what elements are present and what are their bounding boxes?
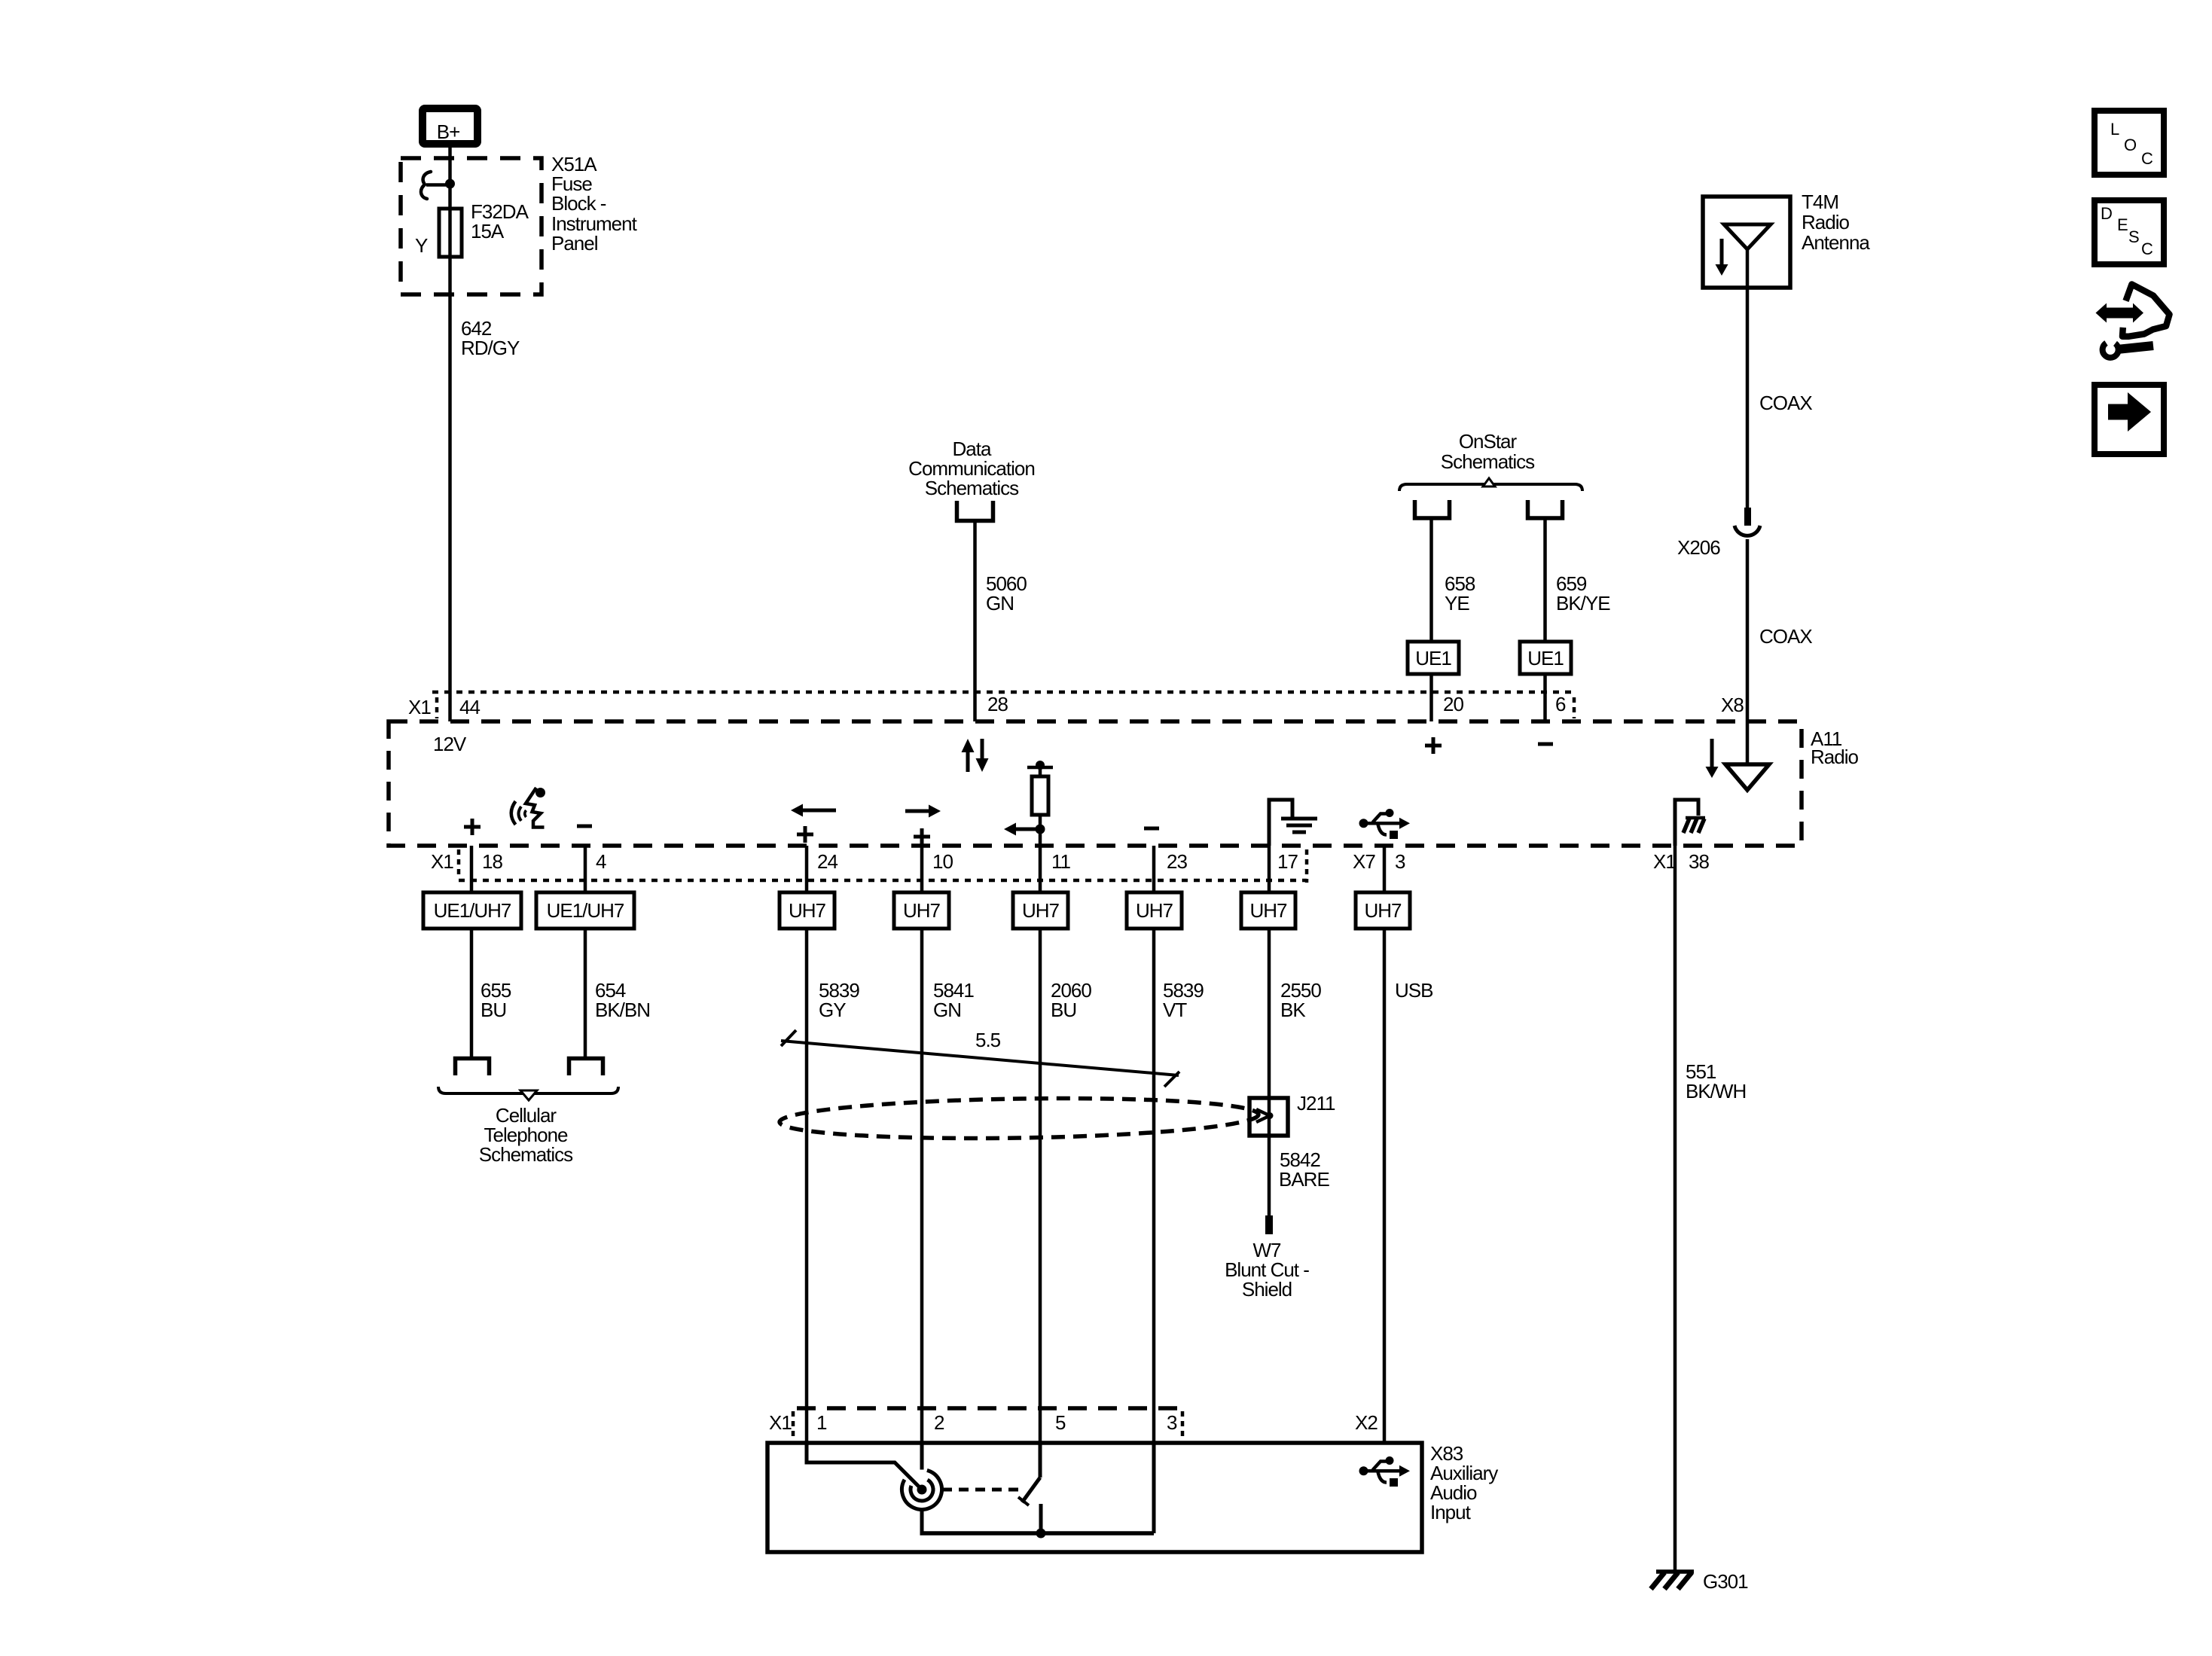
svg-text:G301: G301 <box>1703 1570 1748 1593</box>
forward reference arrow box <box>2095 385 2164 454</box>
svg-text:UE1/UH7: UE1/UH7 <box>434 899 511 922</box>
svg-text:44: 44 <box>459 696 480 718</box>
radio antenna T4M box <box>1703 197 1790 288</box>
svg-text:X206: X206 <box>1677 536 1720 559</box>
svg-text:6: 6 <box>1555 693 1566 715</box>
B+ battery terminal box <box>423 108 477 144</box>
resistor network (pin 11) <box>1004 761 1053 846</box>
splice J211 <box>1249 1098 1288 1136</box>
harness code box UH7 (pin X7-3) <box>1356 892 1410 929</box>
svg-text:X1: X1 <box>408 696 431 718</box>
shield ellipse (dashed) <box>780 1095 1259 1142</box>
svg-text:38: 38 <box>1689 850 1709 873</box>
special tools icon <box>2096 285 2170 358</box>
wire stub X83 pin 2 <box>920 1408 924 1443</box>
wire USB <box>1383 929 1387 1443</box>
svg-text:18: 18 <box>482 850 502 873</box>
svg-text:12V: 12V <box>433 733 467 755</box>
svg-text:RD/GY: RD/GY <box>461 337 520 359</box>
earth ground symbol (pin 17) <box>1269 800 1317 846</box>
jack vertical wire (pin 2) <box>920 1443 924 1470</box>
svg-text:YE: YE <box>1445 592 1469 615</box>
svg-text:Schematics: Schematics <box>479 1143 573 1166</box>
chassis ground (pin X1-38) inside radio <box>1675 800 1705 846</box>
switch wire (pin 5) <box>1039 1443 1042 1478</box>
svg-text:UH7: UH7 <box>1022 899 1060 922</box>
svg-text:Radio: Radio <box>1802 211 1849 233</box>
svg-text:1: 1 <box>816 1411 827 1434</box>
svg-text:24: 24 <box>817 850 838 873</box>
bus hook symbol <box>421 172 431 199</box>
plus mark (pin 10) <box>914 835 930 839</box>
svg-text:15A: 15A <box>471 220 505 242</box>
plus mark (pin 18) <box>464 825 481 829</box>
svg-text:J211: J211 <box>1297 1092 1335 1115</box>
harness code box UH7 (pin 11) <box>1013 892 1068 929</box>
svg-text:UH7: UH7 <box>1136 899 1173 922</box>
svg-text:Panel: Panel <box>551 232 598 255</box>
wire 658 YE <box>1429 520 1433 642</box>
jack feed wire (pin 1) <box>807 1443 920 1488</box>
svg-text:4: 4 <box>596 850 606 873</box>
svg-text:USB: USB <box>1395 979 1432 1002</box>
svg-text:Block -: Block - <box>551 192 606 215</box>
label X51A Fuse Block - Instrument Panel <box>551 153 638 255</box>
cellular stub connector (654) <box>569 1059 603 1076</box>
svg-text:GN: GN <box>986 592 1014 615</box>
cellular stub connector (655) <box>456 1059 490 1076</box>
wire stub X83 pin 1 <box>805 1408 809 1443</box>
svg-text:BK/BN: BK/BN <box>595 999 650 1021</box>
svg-text:D: D <box>2101 204 2112 223</box>
minus mark (pin 4) <box>577 825 592 828</box>
microphone icon inside radio <box>511 788 545 828</box>
svg-text:GY: GY <box>819 999 846 1021</box>
harness code box UH7 (pin 23) <box>1127 892 1182 929</box>
audio jack symbol <box>902 1470 941 1509</box>
svg-text:BK: BK <box>1280 999 1306 1021</box>
svg-text:UH7: UH7 <box>1249 899 1287 922</box>
svg-text:BU: BU <box>1051 999 1076 1021</box>
wire B+ to fuse <box>448 144 452 721</box>
junction node in fuse block <box>445 179 455 189</box>
inline connector X206 <box>1744 508 1751 526</box>
svg-text:UH7: UH7 <box>903 899 941 922</box>
svg-text:COAX: COAX <box>1759 625 1812 648</box>
label Cellular Telephone Schematics <box>479 1104 573 1166</box>
OnStar stub connector 2 <box>1528 500 1563 518</box>
data in/out arrows inside radio <box>962 739 989 772</box>
svg-text:OnStar: OnStar <box>1459 430 1518 453</box>
svg-text:E: E <box>2117 215 2128 234</box>
harness code box UH7 (pin 10) <box>894 892 949 929</box>
OnStar schematics brace <box>1399 478 1582 491</box>
harness code box UE1/UH7 (pin 18) <box>423 892 521 929</box>
svg-text:T4M: T4M <box>1802 191 1838 213</box>
wire stub pin 11 <box>1039 846 1042 892</box>
common return line in X83 <box>920 1531 1155 1536</box>
plus mark (pin 24) <box>797 833 813 837</box>
svg-text:UE1/UH7: UE1/UH7 <box>547 899 624 922</box>
wire 5839 VT <box>1152 929 1156 1408</box>
wire stub pin X7-3 <box>1383 846 1387 892</box>
data communication schematics stub connector <box>957 501 993 521</box>
coax wire upper <box>1746 288 1750 508</box>
USB icon (pin X7-3) <box>1359 809 1411 839</box>
svg-text:X1: X1 <box>1653 850 1676 873</box>
DESC reference box <box>2095 200 2164 264</box>
svg-text:5.5: 5.5 <box>975 1029 1001 1051</box>
wire 5839 GY <box>805 929 809 1408</box>
antenna input symbol inside radio <box>1706 739 1770 790</box>
svg-text:UE1: UE1 <box>1527 647 1564 669</box>
ground G301 <box>1651 1572 1694 1589</box>
svg-text:UH7: UH7 <box>1364 899 1402 922</box>
wire 2550 BK <box>1268 929 1271 1136</box>
wire 654 BK/BN <box>584 929 587 1057</box>
minus mark (pin 23) <box>1144 827 1159 831</box>
svg-text:UH7: UH7 <box>789 899 826 922</box>
detect link (dashed) <box>942 1488 1021 1492</box>
blunt cut end W7 <box>1265 1215 1273 1234</box>
harness code box UE1/UH7 (pin 4) <box>536 892 634 929</box>
svg-text:10: 10 <box>932 850 953 873</box>
svg-text:11: 11 <box>1051 850 1071 873</box>
wire 655 BU <box>470 929 474 1057</box>
wire stub pin 23 <box>1152 846 1156 892</box>
UE1 box (659) <box>1520 642 1571 674</box>
svg-text:23: 23 <box>1167 850 1187 873</box>
wire stub pin 17 <box>1268 846 1271 892</box>
wire 5841 GN <box>920 929 924 1408</box>
USB icon in X83 <box>1359 1456 1411 1487</box>
right audio arrow (pin 10) <box>905 810 930 813</box>
detect switch <box>1018 1478 1040 1505</box>
OnStar stub connector 1 <box>1415 500 1450 518</box>
svg-text:X7: X7 <box>1353 850 1375 873</box>
svg-text:S: S <box>2128 227 2139 246</box>
svg-text:X2: X2 <box>1355 1411 1378 1434</box>
wire 5060 GN <box>973 523 977 721</box>
svg-text:Schematics: Schematics <box>1441 450 1535 473</box>
LOC reference box <box>2095 111 2164 175</box>
svg-text:17: 17 <box>1277 850 1298 873</box>
wire 5842 BARE <box>1268 1136 1271 1217</box>
junction node in X83 <box>1036 1529 1046 1539</box>
plus mark (pin 20) <box>1425 744 1442 748</box>
svg-text:Input: Input <box>1430 1501 1472 1523</box>
minus mark (pin 6) <box>1538 743 1553 746</box>
svg-text:Shield: Shield <box>1242 1278 1292 1301</box>
UE1 box (658) <box>1408 642 1459 674</box>
wire stub X83 pin 3 <box>1152 1408 1156 1443</box>
cellular telephone brace <box>438 1087 618 1100</box>
svg-text:3: 3 <box>1167 1411 1177 1434</box>
connector X1 rail at X83 (dashed) <box>797 1406 1184 1410</box>
left audio arrow (pin 24) <box>801 809 836 813</box>
svg-text:BK/YE: BK/YE <box>1556 592 1610 615</box>
harness code box UH7 (pin 24) <box>780 892 834 929</box>
svg-text:L: L <box>2110 120 2119 139</box>
label Data Communication Schematics <box>908 438 1035 499</box>
svg-text:C: C <box>2141 239 2153 258</box>
wire 2060 BU <box>1039 929 1042 1408</box>
svg-text:O: O <box>2124 136 2137 154</box>
wire stub pin 10 <box>920 846 924 892</box>
label X83 Auxiliary Audio Input <box>1430 1442 1498 1523</box>
svg-text:BU: BU <box>481 999 506 1021</box>
svg-text:B+: B+ <box>437 120 460 143</box>
svg-text:Y: Y <box>415 234 428 257</box>
svg-text:2: 2 <box>934 1411 944 1434</box>
wire stub pin 4 <box>584 846 587 892</box>
svg-text:UE1: UE1 <box>1415 647 1451 669</box>
return wire (pin 3) <box>1152 1443 1156 1533</box>
svg-text:VT: VT <box>1163 999 1187 1021</box>
wire stub pin 18 <box>470 846 474 892</box>
svg-text:X1: X1 <box>431 850 453 873</box>
wire stub X83 pin 5 <box>1039 1408 1042 1443</box>
svg-text:X8: X8 <box>1721 694 1744 716</box>
svg-text:5: 5 <box>1055 1411 1066 1434</box>
svg-text:C: C <box>2141 149 2153 168</box>
harness code box UH7 (pin 17) <box>1241 892 1295 929</box>
svg-text:Schematics: Schematics <box>925 477 1019 499</box>
svg-text:20: 20 <box>1443 693 1463 715</box>
svg-text:Radio: Radio <box>1811 746 1858 768</box>
svg-text:28: 28 <box>987 693 1008 715</box>
wire 659 BK/YE <box>1543 520 1547 642</box>
wire 551 BK/WH <box>1673 846 1677 1572</box>
svg-text:3: 3 <box>1395 850 1405 873</box>
wire stub pin 24 <box>805 846 809 892</box>
svg-text:Antenna: Antenna <box>1802 231 1870 254</box>
fuse block X51A dashed box <box>401 158 542 294</box>
radio A11 dashed box <box>389 721 1802 846</box>
svg-text:GN: GN <box>933 999 961 1021</box>
connector X1 bottom rail (dotted) <box>459 879 1307 883</box>
svg-text:COAX: COAX <box>1759 392 1812 414</box>
coax wire lower <box>1746 539 1750 764</box>
svg-text:X1: X1 <box>769 1411 792 1434</box>
svg-text:BARE: BARE <box>1279 1168 1329 1191</box>
fuse F32DA 15A <box>439 209 462 257</box>
svg-text:BK/WH: BK/WH <box>1686 1080 1746 1102</box>
twisted pair marker 5.5 <box>781 1029 1179 1087</box>
auxiliary audio input X83 box <box>767 1443 1422 1552</box>
connector X1 top rail (dotted) <box>432 691 1574 694</box>
